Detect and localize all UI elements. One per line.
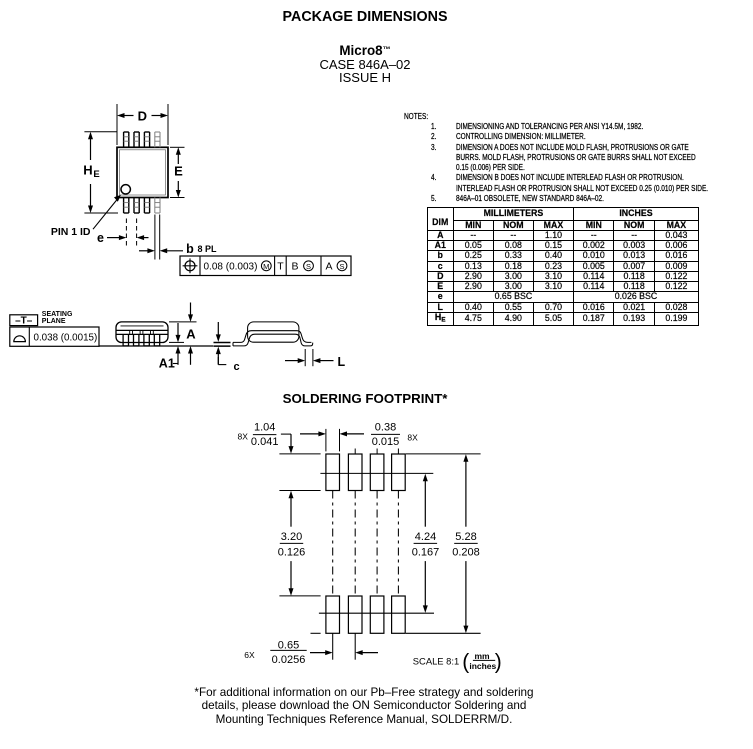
dimension L (foot length) xyxy=(285,349,346,369)
package top view body xyxy=(117,147,168,197)
svg-text:8 PL: 8 PL xyxy=(198,244,218,254)
dimension 4.24/0.167 xyxy=(412,474,440,613)
svg-text:0.041: 0.041 xyxy=(251,436,279,448)
svg-text:6X: 6X xyxy=(244,650,255,660)
svg-text:0.0256: 0.0256 xyxy=(272,654,306,666)
dimension 0.65/0.0256 pitch xyxy=(244,639,378,666)
dimension 1.04/0.041 pad length xyxy=(238,421,294,453)
top view pin 4 (top row) xyxy=(155,132,160,147)
svg-text:0.015: 0.015 xyxy=(372,436,400,448)
datum T identifier box xyxy=(10,315,38,327)
svg-text:D: D xyxy=(138,108,147,123)
dimension 0.38/0.015 pad width xyxy=(300,421,418,451)
top view pin 3 (top row) xyxy=(144,132,149,147)
top view pin 1 (top row) xyxy=(124,132,129,147)
pin 1 ID leader and label xyxy=(51,195,121,238)
dimension 3.20/0.126 inner span xyxy=(278,491,306,596)
svg-text:0.65: 0.65 xyxy=(278,639,299,651)
top view pin 4 (bottom row) xyxy=(155,198,160,214)
svg-text:B: B xyxy=(291,261,298,273)
svg-text:5.28: 5.28 xyxy=(455,531,476,543)
dimension A1 (standoff) xyxy=(159,323,184,370)
svg-text:0.208: 0.208 xyxy=(452,546,480,558)
svg-text:S: S xyxy=(339,262,344,271)
dimension D (package width) xyxy=(117,104,168,145)
svg-text:mm: mm xyxy=(474,651,490,661)
front view back-row lead ticks xyxy=(130,330,154,334)
svg-text:PIN 1 ID: PIN 1 ID xyxy=(51,226,91,238)
package name xyxy=(0,43,730,58)
soldering footprint top pads xyxy=(326,454,405,491)
scale note xyxy=(413,650,502,673)
svg-text:3.20: 3.20 xyxy=(281,531,302,543)
svg-text:A: A xyxy=(186,327,196,342)
front view lead frame band xyxy=(116,330,169,334)
svg-text:0.38: 0.38 xyxy=(375,421,396,433)
front view molded body xyxy=(116,322,168,343)
top view pin 1 (bottom row) xyxy=(124,198,129,214)
profile view molded body xyxy=(248,322,299,342)
svg-text:M: M xyxy=(263,262,269,271)
svg-text:8X: 8X xyxy=(407,433,418,443)
svg-text:8X: 8X xyxy=(238,432,249,442)
svg-text:1.04: 1.04 xyxy=(254,421,275,433)
dimension HE (overall width incl pins) xyxy=(83,132,118,213)
dimension E (body length) xyxy=(170,147,185,197)
pin 1 ID circle xyxy=(121,185,130,194)
flatness feature control frame xyxy=(10,327,99,346)
svg-text:(: ( xyxy=(462,650,469,673)
svg-text:T: T xyxy=(277,261,284,273)
footprint pad centerlines xyxy=(333,449,399,660)
front view lead 1 xyxy=(123,334,128,346)
top view pin 2 (top row) xyxy=(134,132,139,147)
page title xyxy=(0,9,730,25)
dimension table xyxy=(427,207,699,325)
front view lead 2 xyxy=(134,334,139,346)
profile view gull-wing lead xyxy=(233,331,313,346)
svg-text:E: E xyxy=(93,169,99,180)
seating plane line xyxy=(99,345,213,347)
dimension c (lead thickness) xyxy=(214,322,240,373)
svg-text:A1: A1 xyxy=(159,356,175,370)
svg-text:A: A xyxy=(325,261,332,273)
svg-text:inches: inches xyxy=(469,661,496,671)
top view pin 3 (bottom row) xyxy=(144,198,149,214)
soldering footprint title xyxy=(0,391,730,406)
svg-text:SEATING: SEATING xyxy=(42,311,73,318)
svg-text:0.167: 0.167 xyxy=(412,546,440,558)
svg-text:SCALE 8:1: SCALE 8:1 xyxy=(413,655,459,666)
svg-text:L: L xyxy=(338,355,346,369)
svg-text:PLANE: PLANE xyxy=(42,318,66,325)
svg-text:0.126: 0.126 xyxy=(278,546,306,558)
dimension b (pin width, 8 places) xyxy=(139,215,217,260)
svg-text:e: e xyxy=(97,231,104,245)
svg-text:H: H xyxy=(83,163,92,178)
front view lead 4 xyxy=(154,334,159,346)
dimension 5.28/0.208 overall span xyxy=(452,454,480,633)
notes xyxy=(404,112,428,121)
soldering footprint bottom pads xyxy=(326,596,405,633)
svg-text:0.08 (0.003): 0.08 (0.003) xyxy=(204,261,258,272)
footprint extension lines xyxy=(279,454,480,633)
dimension e (pin pitch) xyxy=(97,219,148,249)
svg-text:S: S xyxy=(306,262,311,271)
top view pin 2 (bottom row) xyxy=(134,198,139,214)
svg-text:b: b xyxy=(186,242,194,256)
footprint inner edge line (top row) xyxy=(320,472,433,474)
svg-text:–T–: –T– xyxy=(15,315,33,326)
svg-text:0.038 (0.0015): 0.038 (0.0015) xyxy=(34,333,98,344)
dimension A (overall height) xyxy=(169,303,197,365)
svg-text:4.24: 4.24 xyxy=(415,531,436,543)
seating plane label xyxy=(42,311,73,325)
position tolerance feature control frame xyxy=(180,256,351,276)
footprint inner edge line (bottom row) xyxy=(319,612,434,614)
svg-text:E: E xyxy=(174,164,183,179)
svg-text:c: c xyxy=(234,361,240,373)
front view lead 3 xyxy=(144,334,149,346)
footer note xyxy=(0,686,728,727)
